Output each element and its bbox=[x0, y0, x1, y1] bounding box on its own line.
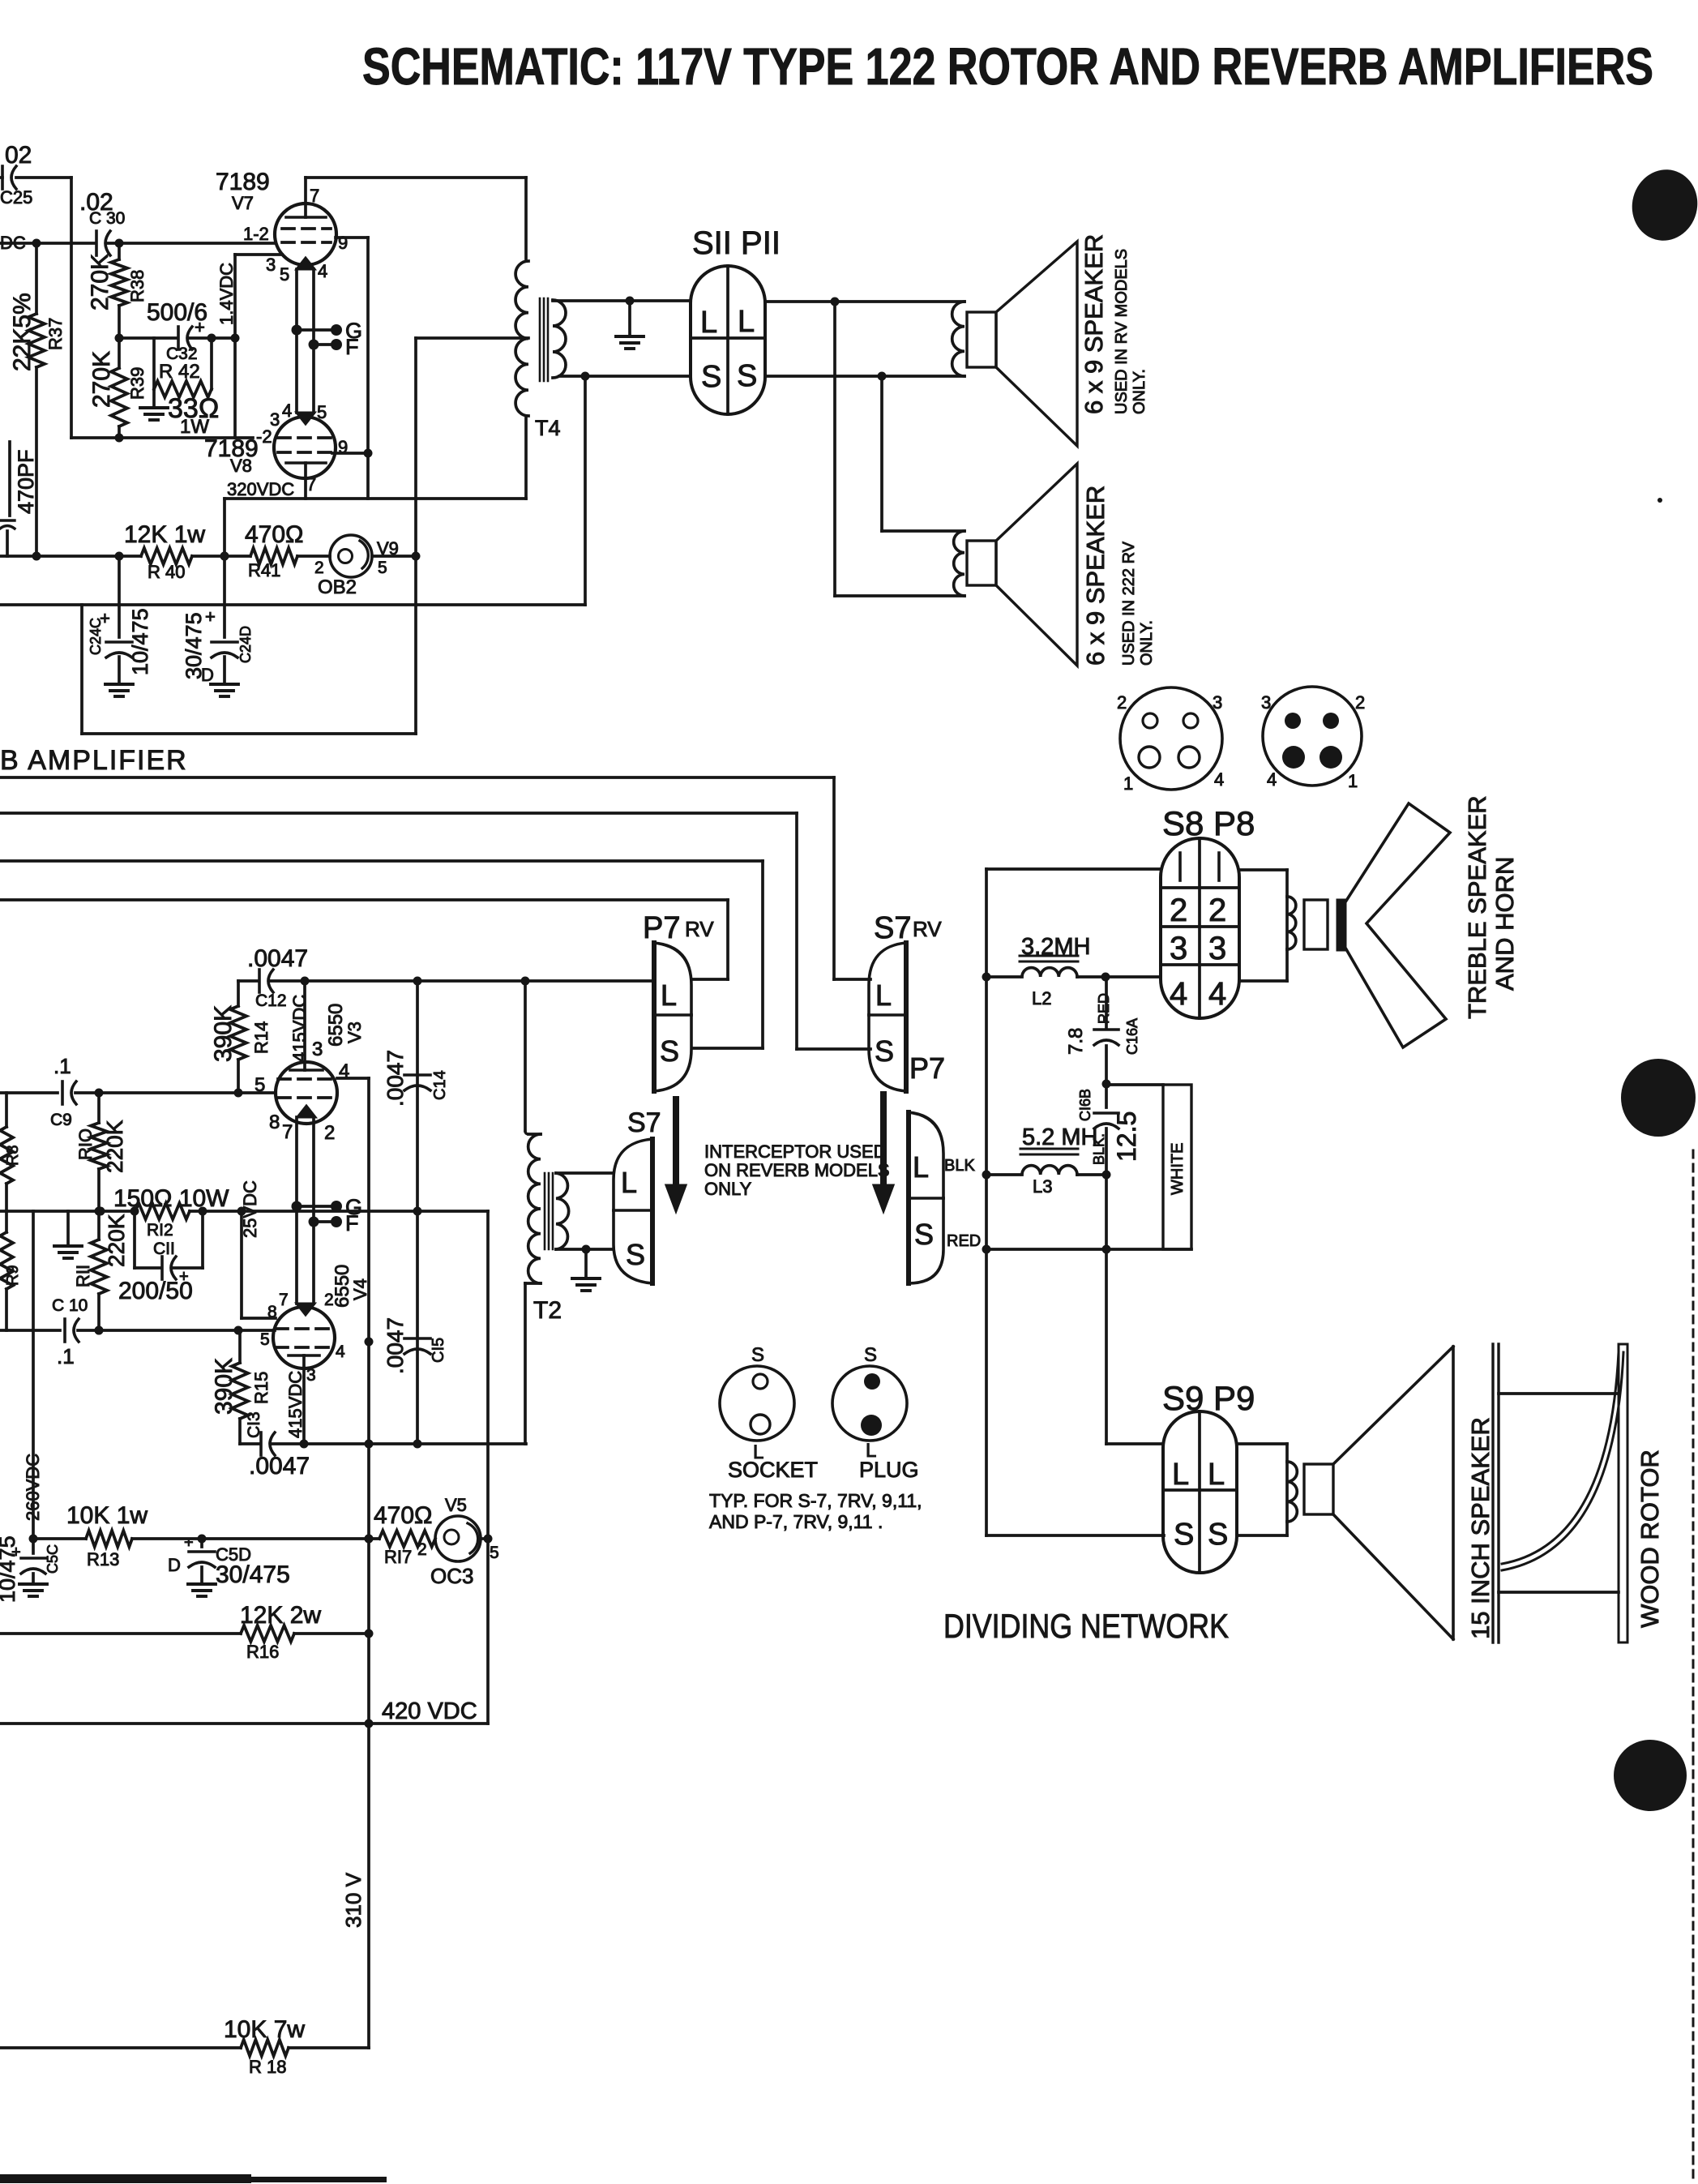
svg-text:1.4VDC: 1.4VDC bbox=[216, 263, 237, 325]
svg-text:.0047: .0047 bbox=[247, 945, 308, 972]
svg-text:7: 7 bbox=[306, 474, 316, 495]
svg-text:C24C: C24C bbox=[88, 618, 104, 655]
svg-text:RV: RV bbox=[913, 917, 942, 941]
svg-text:C5C: C5C bbox=[45, 1544, 61, 1574]
svg-text:4: 4 bbox=[1267, 769, 1277, 790]
svg-text:BLK: BLK bbox=[944, 1157, 975, 1175]
svg-text:2: 2 bbox=[324, 1122, 335, 1144]
svg-text:R16: R16 bbox=[246, 1642, 279, 1662]
svg-text:SCHEMATIC: 117V TYPE 122 ROTOR: SCHEMATIC: 117V TYPE 122 ROTOR AND REVER… bbox=[362, 37, 1653, 96]
svg-text:S: S bbox=[1208, 1518, 1228, 1552]
svg-text:10K 1w: 10K 1w bbox=[66, 1502, 148, 1529]
svg-text:RV: RV bbox=[685, 917, 714, 941]
svg-text:6550: 6550 bbox=[325, 1004, 347, 1047]
svg-text:L: L bbox=[1172, 1458, 1189, 1492]
svg-text:V8: V8 bbox=[230, 456, 252, 476]
svg-text:V3: V3 bbox=[344, 1021, 365, 1043]
svg-text:3: 3 bbox=[312, 1038, 323, 1060]
svg-text:C24D: C24D bbox=[237, 626, 254, 663]
svg-text:2: 2 bbox=[1355, 692, 1365, 713]
svg-text:7: 7 bbox=[279, 1291, 289, 1309]
svg-text:2: 2 bbox=[417, 1540, 427, 1559]
svg-text:30/475: 30/475 bbox=[216, 1561, 290, 1588]
svg-text:USED IN RV MODELS: USED IN RV MODELS bbox=[1113, 249, 1131, 414]
svg-text:2: 2 bbox=[1208, 893, 1226, 928]
svg-text:470Ω: 470Ω bbox=[245, 521, 303, 548]
svg-text:T2: T2 bbox=[533, 1297, 562, 1324]
svg-text:ONLY: ONLY bbox=[704, 1179, 752, 1199]
svg-text:R14: R14 bbox=[251, 1021, 272, 1054]
svg-text:3: 3 bbox=[266, 255, 276, 275]
svg-text:WOOD ROTOR: WOOD ROTOR bbox=[1636, 1450, 1664, 1628]
svg-text:260VDC: 260VDC bbox=[23, 1454, 43, 1521]
svg-text:C25: C25 bbox=[0, 187, 32, 208]
svg-text:S: S bbox=[751, 1344, 764, 1366]
svg-text:USED IN 222 RV: USED IN 222 RV bbox=[1120, 541, 1138, 666]
svg-text:L: L bbox=[738, 305, 755, 339]
svg-text:S: S bbox=[626, 1238, 645, 1271]
svg-text:5: 5 bbox=[280, 264, 289, 285]
svg-text:4: 4 bbox=[1170, 976, 1187, 1012]
svg-text:25VDC: 25VDC bbox=[240, 1180, 260, 1238]
svg-text:1W: 1W bbox=[180, 416, 209, 438]
svg-text:S: S bbox=[701, 360, 721, 394]
svg-text:8: 8 bbox=[269, 1111, 280, 1133]
svg-text:4: 4 bbox=[1208, 976, 1226, 1012]
svg-text:R13: R13 bbox=[87, 1549, 119, 1569]
svg-text:PLUG: PLUG bbox=[859, 1458, 919, 1482]
svg-text:L: L bbox=[913, 1150, 929, 1184]
svg-text:420 VDC: 420 VDC bbox=[382, 1698, 477, 1724]
svg-text:12.5: 12.5 bbox=[1112, 1111, 1141, 1162]
svg-text:P7: P7 bbox=[643, 911, 680, 945]
svg-text:B AMPLIFIER: B AMPLIFIER bbox=[0, 745, 188, 776]
svg-text:C 30: C 30 bbox=[89, 209, 125, 228]
svg-text:S7: S7 bbox=[874, 911, 911, 945]
svg-text:CI5: CI5 bbox=[430, 1338, 447, 1363]
svg-text:15 INCH SPEAKER: 15 INCH SPEAKER bbox=[1466, 1417, 1495, 1639]
svg-text:AND HORN: AND HORN bbox=[1491, 857, 1519, 991]
svg-text:R41: R41 bbox=[248, 560, 280, 580]
svg-text:T4: T4 bbox=[535, 416, 561, 440]
svg-text:CI6B: CI6B bbox=[1077, 1089, 1093, 1121]
svg-text:S: S bbox=[875, 1034, 894, 1068]
svg-text:2: 2 bbox=[324, 1291, 334, 1309]
svg-text:R8: R8 bbox=[4, 1145, 22, 1166]
svg-text:2: 2 bbox=[1117, 692, 1127, 713]
svg-text:AND P-7, 7RV, 9,11 .: AND P-7, 7RV, 9,11 . bbox=[709, 1511, 883, 1532]
svg-text:150Ω 10W: 150Ω 10W bbox=[113, 1185, 229, 1212]
svg-text:R 18: R 18 bbox=[249, 2057, 286, 2077]
svg-text:RIO: RIO bbox=[75, 1128, 96, 1160]
svg-text:OC3: OC3 bbox=[430, 1564, 473, 1588]
svg-text:2: 2 bbox=[1170, 893, 1187, 928]
svg-text:ONLY.: ONLY. bbox=[1138, 620, 1156, 666]
svg-text:CI3: CI3 bbox=[245, 1411, 263, 1438]
svg-text:3: 3 bbox=[1208, 931, 1226, 966]
svg-text:OB2: OB2 bbox=[318, 576, 357, 598]
svg-text:7: 7 bbox=[310, 186, 319, 206]
svg-text:C12: C12 bbox=[255, 991, 287, 1010]
svg-text:6 x 9 SPEAKER: 6 x 9 SPEAKER bbox=[1080, 234, 1108, 414]
svg-text:INTERCEPTOR USED: INTERCEPTOR USED bbox=[704, 1141, 887, 1162]
svg-text:3: 3 bbox=[1213, 692, 1222, 713]
svg-text:3.2MH: 3.2MH bbox=[1021, 934, 1090, 960]
svg-text:S: S bbox=[914, 1218, 934, 1251]
svg-text:.0047: .0047 bbox=[383, 1317, 408, 1374]
svg-text:390K: 390K bbox=[211, 1358, 237, 1415]
svg-text:S: S bbox=[737, 359, 757, 393]
svg-text:RI7: RI7 bbox=[384, 1547, 412, 1567]
svg-text:320VDC: 320VDC bbox=[227, 479, 294, 499]
svg-text:310 V: 310 V bbox=[341, 1872, 366, 1928]
svg-text:1-2: 1-2 bbox=[243, 224, 269, 244]
svg-text:9: 9 bbox=[338, 233, 348, 253]
svg-text:+: + bbox=[205, 606, 216, 627]
svg-text:S8 P8: S8 P8 bbox=[1162, 804, 1255, 842]
svg-text:D: D bbox=[168, 1555, 181, 1575]
svg-text:S: S bbox=[864, 1344, 877, 1366]
svg-text:3: 3 bbox=[270, 409, 280, 430]
svg-text:02: 02 bbox=[5, 142, 32, 169]
svg-text:CII: CII bbox=[153, 1240, 175, 1258]
svg-text:P7: P7 bbox=[909, 1051, 945, 1085]
svg-text:V4: V4 bbox=[350, 1278, 370, 1300]
svg-text:R 40: R 40 bbox=[148, 562, 185, 582]
svg-text:R38: R38 bbox=[127, 270, 148, 302]
svg-text:SOCKET: SOCKET bbox=[728, 1458, 818, 1482]
svg-text:10K 7w: 10K 7w bbox=[224, 2016, 305, 2043]
svg-text:ON REVERB MODELS: ON REVERB MODELS bbox=[704, 1160, 890, 1180]
svg-text:L3: L3 bbox=[1033, 1176, 1052, 1197]
svg-text:.0047: .0047 bbox=[383, 1050, 408, 1107]
svg-text:V9: V9 bbox=[377, 538, 399, 559]
svg-text:R 42: R 42 bbox=[159, 361, 200, 383]
svg-text:500/6: 500/6 bbox=[147, 299, 207, 326]
svg-text:SII PII: SII PII bbox=[692, 225, 781, 261]
svg-text:S: S bbox=[660, 1034, 679, 1068]
svg-text:TYP. FOR S-7, 7RV, 9,11,: TYP. FOR S-7, 7RV, 9,11, bbox=[709, 1490, 922, 1511]
svg-text:3: 3 bbox=[1170, 931, 1187, 966]
svg-text:3: 3 bbox=[1261, 692, 1271, 713]
svg-text:TREBLE SPEAKER: TREBLE SPEAKER bbox=[1463, 795, 1491, 1019]
svg-text:4: 4 bbox=[282, 400, 292, 421]
svg-text:R37: R37 bbox=[45, 318, 66, 350]
svg-text:R39: R39 bbox=[127, 367, 148, 400]
svg-text:1: 1 bbox=[1123, 773, 1133, 794]
svg-text:ONLY.: ONLY. bbox=[1131, 369, 1148, 414]
svg-text:WHITE: WHITE bbox=[1169, 1143, 1187, 1195]
svg-text:5: 5 bbox=[490, 1544, 499, 1562]
svg-text:S7: S7 bbox=[627, 1107, 661, 1138]
svg-text:L: L bbox=[661, 979, 677, 1012]
svg-text:5.2 MH: 5.2 MH bbox=[1022, 1124, 1097, 1150]
svg-text:+: + bbox=[184, 1534, 194, 1552]
svg-text:RED: RED bbox=[1096, 993, 1112, 1024]
svg-text:7189: 7189 bbox=[216, 169, 270, 195]
svg-text:R9: R9 bbox=[4, 1265, 22, 1286]
svg-text:4: 4 bbox=[318, 261, 327, 281]
svg-text:RI2: RI2 bbox=[147, 1221, 173, 1240]
svg-text:C9: C9 bbox=[50, 1111, 72, 1129]
svg-text:C16A: C16A bbox=[1124, 1018, 1140, 1055]
svg-text:L: L bbox=[700, 306, 717, 340]
svg-text:RII: RII bbox=[73, 1265, 93, 1287]
svg-text:270K: 270K bbox=[88, 351, 115, 408]
svg-text:3: 3 bbox=[306, 1366, 316, 1385]
svg-text:22K5%: 22K5% bbox=[9, 293, 36, 371]
svg-text:200/50: 200/50 bbox=[118, 1278, 193, 1304]
svg-text:470PF: 470PF bbox=[14, 449, 38, 514]
svg-text:L: L bbox=[621, 1166, 637, 1199]
svg-text:12K 2w: 12K 2w bbox=[240, 1602, 321, 1629]
svg-text:.0047: .0047 bbox=[249, 1453, 310, 1480]
svg-text:L: L bbox=[875, 979, 892, 1012]
svg-text:RED: RED bbox=[947, 1232, 981, 1250]
svg-text:.1: .1 bbox=[53, 1054, 71, 1078]
svg-text:L: L bbox=[1208, 1458, 1225, 1492]
svg-text:4: 4 bbox=[336, 1343, 345, 1361]
svg-text:R15: R15 bbox=[251, 1372, 272, 1404]
svg-text:7: 7 bbox=[282, 1121, 293, 1143]
svg-text:220K: 220K bbox=[102, 1120, 127, 1173]
svg-text:415VDC: 415VDC bbox=[285, 1371, 306, 1438]
svg-text:415VDC: 415VDC bbox=[289, 995, 310, 1062]
svg-text:12K 1w: 12K 1w bbox=[124, 521, 205, 548]
svg-text:10/475: 10/475 bbox=[128, 608, 152, 675]
svg-text:V5: V5 bbox=[445, 1495, 467, 1515]
svg-text:10/475: 10/475 bbox=[0, 1535, 19, 1603]
svg-text:470Ω: 470Ω bbox=[374, 1502, 432, 1529]
svg-text:270K: 270K bbox=[87, 254, 113, 310]
svg-text:D: D bbox=[201, 665, 214, 685]
svg-text:6 x 9 SPEAKER: 6 x 9 SPEAKER bbox=[1081, 486, 1110, 666]
svg-text:S: S bbox=[1174, 1518, 1194, 1552]
svg-text:5: 5 bbox=[378, 559, 387, 577]
svg-text:390K: 390K bbox=[210, 1005, 237, 1062]
svg-text:C 10: C 10 bbox=[52, 1296, 88, 1315]
svg-text:8: 8 bbox=[267, 1303, 277, 1321]
svg-text:5: 5 bbox=[317, 402, 327, 422]
svg-text:L2: L2 bbox=[1032, 988, 1051, 1008]
svg-text:1: 1 bbox=[1348, 771, 1358, 791]
svg-text:2: 2 bbox=[314, 559, 324, 577]
svg-text:V7: V7 bbox=[232, 193, 254, 213]
svg-text:.1: .1 bbox=[57, 1344, 75, 1368]
svg-text:F: F bbox=[345, 335, 359, 359]
svg-text:4: 4 bbox=[1214, 769, 1224, 790]
svg-text:DIVIDING NETWORK: DIVIDING NETWORK bbox=[943, 1607, 1229, 1645]
svg-text:F: F bbox=[345, 1211, 359, 1235]
svg-text:C14: C14 bbox=[431, 1070, 449, 1100]
svg-text:5: 5 bbox=[260, 1330, 270, 1349]
svg-text:220K: 220K bbox=[104, 1214, 129, 1267]
svg-text:7.8: 7.8 bbox=[1065, 1028, 1087, 1055]
